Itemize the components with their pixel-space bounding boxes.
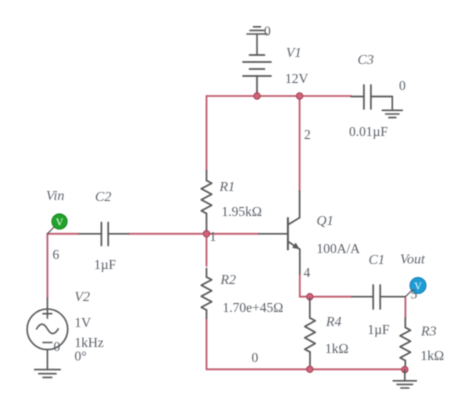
svg-text:0: 0 bbox=[54, 339, 61, 354]
svg-text:R4: R4 bbox=[325, 315, 342, 330]
svg-text:1µF: 1µF bbox=[368, 322, 391, 337]
capacitor C1 bbox=[352, 285, 405, 309]
label V2 bbox=[75, 290, 91, 305]
value 1.70e+45Ohm bbox=[223, 300, 284, 315]
svg-text:100A/A: 100A/A bbox=[317, 241, 361, 256]
resistor R1 bbox=[201, 171, 211, 232]
svg-text:1.70e+45Ω: 1.70e+45Ω bbox=[223, 300, 284, 315]
wire node1 to R2 bbox=[206, 234, 208, 266]
probe Vout bbox=[410, 278, 426, 294]
svg-text:1: 1 bbox=[210, 229, 217, 244]
wire Vout corner down to R3 bbox=[404, 298, 406, 318]
node 2 label bbox=[304, 127, 311, 142]
svg-text:1µF: 1µF bbox=[94, 257, 117, 272]
svg-text:1kΩ: 1kΩ bbox=[325, 341, 349, 356]
junction V1-rail bbox=[254, 93, 260, 99]
label Q1 bbox=[317, 214, 334, 229]
svg-text:R2: R2 bbox=[220, 273, 237, 288]
wire Vin column (corner down to V2) bbox=[46, 234, 48, 298]
label C2 bbox=[95, 190, 111, 205]
svg-text:0°: 0° bbox=[75, 349, 87, 364]
junction R4-bottom rail bbox=[307, 366, 313, 372]
capacitor C2 bbox=[79, 223, 129, 246]
value 100A/A bbox=[317, 241, 361, 256]
svg-text:6: 6 bbox=[53, 247, 60, 262]
value 1kOhm (R3) bbox=[421, 348, 445, 363]
value 1uF (C1) bbox=[368, 322, 391, 337]
label R1 bbox=[219, 180, 236, 195]
resistor R3 bbox=[400, 318, 410, 368]
wire mid rail right (C2 to Q1 base) bbox=[129, 233, 260, 235]
transistor Q1 bbox=[259, 191, 300, 274]
node 0 label (bottom rail) bbox=[252, 350, 259, 365]
source V2 bbox=[27, 298, 68, 370]
label R4 bbox=[325, 315, 342, 330]
value 0.01uF bbox=[349, 124, 388, 139]
wire R2 to bottom rail bbox=[206, 318, 208, 369]
node 4 label bbox=[304, 265, 311, 280]
capacitor C3 bbox=[351, 85, 392, 109]
label V1 bbox=[286, 46, 302, 61]
value 1V bbox=[75, 315, 92, 330]
svg-text:1.95kΩ: 1.95kΩ bbox=[222, 204, 262, 219]
label R2 bbox=[220, 273, 237, 288]
probe Vout leader bbox=[405, 291, 411, 297]
svg-text:C1: C1 bbox=[369, 253, 385, 268]
node 0 label (V2 ground) bbox=[54, 339, 61, 354]
ground below R3 bbox=[393, 370, 416, 388]
value 0deg bbox=[75, 349, 87, 364]
svg-text:C3: C3 bbox=[358, 53, 374, 68]
svg-text:0.01µF: 0.01µF bbox=[349, 124, 388, 139]
label Vin bbox=[46, 189, 64, 204]
svg-text:0: 0 bbox=[252, 350, 259, 365]
value 1uF (C2) bbox=[94, 257, 117, 272]
label C1 bbox=[369, 253, 385, 268]
value 12V bbox=[285, 71, 309, 86]
svg-text:V: V bbox=[56, 218, 64, 229]
wire emitter drop bbox=[299, 274, 301, 297]
node 5 label bbox=[411, 287, 418, 302]
ground (node 0) right of C3 bbox=[382, 97, 402, 118]
wire top rail (+12V) from left column to C3 bbox=[207, 95, 352, 97]
svg-text:2: 2 bbox=[304, 127, 311, 142]
svg-text:Vin: Vin bbox=[46, 189, 64, 204]
node 6 label bbox=[53, 247, 60, 262]
junction emitter-R4 bbox=[307, 294, 313, 300]
svg-text:R3: R3 bbox=[420, 325, 437, 340]
node 1 junction bbox=[203, 231, 209, 237]
svg-text:C2: C2 bbox=[95, 190, 111, 205]
battery V1 bbox=[243, 55, 271, 92]
svg-text:V1: V1 bbox=[286, 46, 302, 61]
svg-text:0: 0 bbox=[399, 78, 406, 93]
svg-text:1kΩ: 1kΩ bbox=[421, 348, 445, 363]
label R3 bbox=[420, 325, 437, 340]
ground (node 0) above V1 bbox=[247, 27, 267, 55]
label C3 bbox=[358, 53, 374, 68]
node 1 label bbox=[210, 229, 217, 244]
wire mid rail left (Vin corner to C2) bbox=[47, 233, 79, 235]
svg-text:Vout: Vout bbox=[400, 253, 426, 268]
ground below V2 bbox=[35, 370, 61, 378]
probe Vin leader bbox=[47, 227, 54, 234]
wire collector column (rail to Q1 collector) bbox=[299, 96, 301, 191]
resistor R2 bbox=[201, 269, 211, 319]
svg-text:1V: 1V bbox=[75, 315, 92, 330]
wire left column top (rail to R1) bbox=[206, 96, 208, 170]
node 0 label (C3 ground) bbox=[399, 78, 406, 93]
svg-text:Q1: Q1 bbox=[317, 214, 334, 229]
value 1kHz bbox=[75, 335, 104, 350]
svg-text:V2: V2 bbox=[75, 290, 91, 305]
wire bottom rail bbox=[207, 368, 405, 370]
wire V1 stub bbox=[256, 91, 258, 96]
node 0 label (top ground) bbox=[264, 24, 271, 39]
svg-text:12V: 12V bbox=[285, 71, 309, 86]
wire emitter rail to C1 bbox=[300, 296, 352, 298]
svg-text:R1: R1 bbox=[219, 180, 236, 195]
junction collector-rail bbox=[296, 93, 302, 99]
svg-text:5: 5 bbox=[411, 287, 418, 302]
probe Vin bbox=[52, 214, 67, 229]
junction R3-bottom rail bbox=[402, 366, 408, 372]
label Vout bbox=[400, 253, 426, 268]
svg-text:4: 4 bbox=[304, 265, 311, 280]
svg-text:0: 0 bbox=[264, 24, 271, 39]
value 1.95kOhm bbox=[222, 204, 262, 219]
resistor R4 bbox=[305, 299, 315, 368]
value 1kOhm (R4) bbox=[325, 341, 349, 356]
